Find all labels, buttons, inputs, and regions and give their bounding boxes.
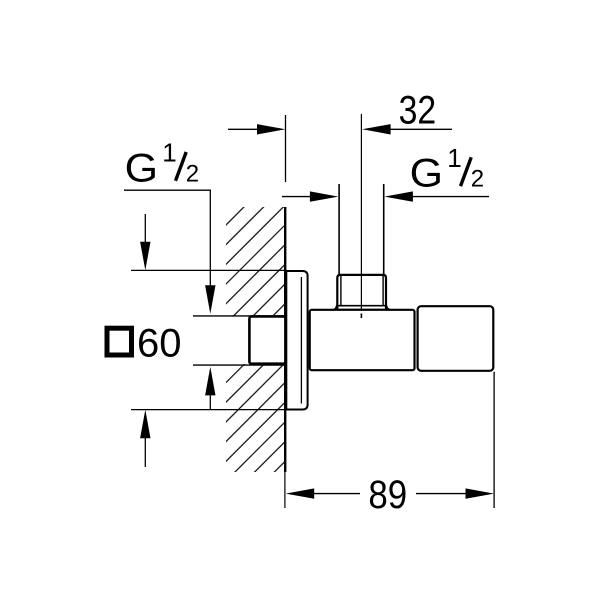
svg-text:G: G <box>410 152 443 196</box>
G1/2 left leader underline <box>124 189 211 191</box>
outlet extension line <box>493 372 495 508</box>
dim 32: extension line at wall face <box>285 115 287 182</box>
riser pipe left edge <box>338 184 340 274</box>
pipe bore up arrow tail <box>209 394 211 410</box>
pipe hole top line <box>193 315 285 317</box>
square inlet union <box>249 316 285 363</box>
dim 89: right arrowhead (points right) <box>466 488 495 498</box>
dim 89: line left segment <box>312 493 360 495</box>
G1/2 left label: fraction slash <box>176 152 187 181</box>
nut washer line <box>336 305 387 307</box>
G1/2 right dim: left tail <box>282 196 312 198</box>
G1/2 left leader arrowhead (points down) <box>205 285 215 314</box>
svg-text:32: 32 <box>399 89 437 133</box>
square-60 extension line top <box>131 269 287 271</box>
union nut <box>337 275 386 310</box>
nut hex flat right <box>382 276 384 306</box>
pipe bore up arrowhead at x=210 <box>205 367 215 396</box>
riser pipe right edge <box>383 184 385 274</box>
svg-text:2: 2 <box>186 160 199 187</box>
dim 32: left arrowhead (points right) <box>257 124 286 134</box>
pipe hole bottom line <box>193 364 285 366</box>
svg-text:1: 1 <box>162 138 176 168</box>
square-60 down arrowhead <box>140 242 150 271</box>
square symbol of 60 label <box>107 328 132 355</box>
nut bottom-left fillet <box>334 306 337 310</box>
escutcheon flange <box>286 271 307 410</box>
svg-text:2: 2 <box>471 166 484 193</box>
nut bottom-right fillet <box>387 306 390 310</box>
svg-text:89: 89 <box>368 473 407 517</box>
wall face line <box>284 207 286 472</box>
center tick <box>360 314 362 319</box>
svg-text:60: 60 <box>137 321 182 365</box>
centerline <box>360 114 362 310</box>
square-60 up arrowhead <box>140 410 150 439</box>
G1/2 right dim: right tail <box>412 196 489 198</box>
nut hex flat left <box>340 276 342 306</box>
dim 32: right arrowhead (points left) <box>362 124 391 134</box>
G1/2 right label: fraction slash <box>461 157 472 186</box>
square-60 extension line bottom <box>131 409 287 411</box>
G1/2 left leader vertical tail <box>209 190 211 286</box>
svg-text:1: 1 <box>447 143 461 173</box>
square-60 up arrow tail <box>144 437 146 467</box>
G1/2 right dim: left arrowhead (points right) <box>310 191 339 201</box>
outlet block <box>418 306 494 371</box>
valve body <box>310 310 415 370</box>
dim 32: left tail <box>228 128 259 130</box>
flange inner edge line <box>300 277 302 404</box>
dim 89: left arrowhead (points left) <box>286 488 315 498</box>
wall face extension line (to 89 dim) <box>284 472 286 508</box>
supply pipe hole band (white-out through wall) <box>190 317 285 365</box>
square-60 down arrow tail <box>144 214 146 244</box>
svg-text:G: G <box>125 146 158 190</box>
dim 32: right tail <box>390 128 452 130</box>
dim 89: right segment <box>416 493 467 495</box>
G1/2 right dim: right arrowhead (points left) <box>384 191 413 201</box>
